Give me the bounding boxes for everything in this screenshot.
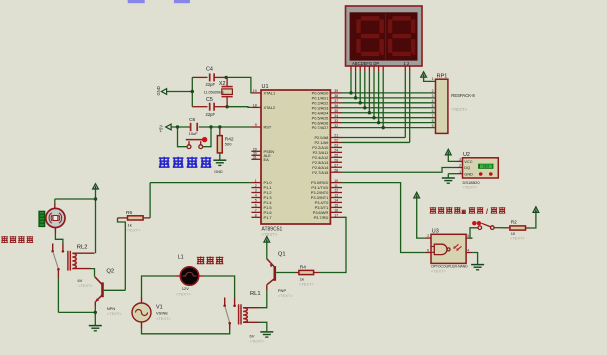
relay RL2 coil 6V bbox=[68, 244, 95, 288]
resistor R2 10 bbox=[494, 220, 530, 241]
svg-text:P1.7: P1.7 bbox=[264, 215, 272, 220]
U1 right pins P0 P2 P3 bbox=[311, 89, 342, 220]
svg-text:34: 34 bbox=[334, 114, 338, 118]
svg-text:+5V: +5V bbox=[158, 125, 163, 133]
svg-text:VSINE: VSINE bbox=[156, 311, 168, 316]
wire lamp right to lamp contact bbox=[199, 276, 235, 298]
7-segment display (2-digit, common anode) bbox=[346, 6, 423, 66]
svg-text:11.0592MHz: 11.0592MHz bbox=[204, 91, 224, 95]
svg-text:Q2: Q2 bbox=[106, 269, 114, 275]
svg-text:21: 21 bbox=[334, 134, 338, 138]
infrared trigger switch bbox=[470, 221, 494, 238]
svg-text:6: 6 bbox=[427, 249, 429, 253]
wire emitter bottom rail bbox=[58, 311, 97, 314]
svg-text:1: 1 bbox=[255, 179, 257, 183]
svg-text:9: 9 bbox=[432, 124, 434, 128]
svg-text:500: 500 bbox=[225, 142, 232, 147]
svg-text:22: 22 bbox=[334, 139, 338, 143]
svg-text:3: 3 bbox=[432, 94, 434, 98]
microcontroller U1 AT89C51 body bbox=[261, 84, 330, 237]
transistor Q2 NPN bbox=[95, 269, 126, 317]
relay contact switch (fan) bbox=[51, 244, 64, 313]
svg-text:RP1: RP1 bbox=[437, 74, 448, 80]
svg-text:DQ: DQ bbox=[464, 165, 470, 170]
svg-text:2: 2 bbox=[432, 89, 434, 93]
lamp L1 12V (kitchen light) bbox=[176, 255, 199, 297]
svg-text:GND: GND bbox=[464, 171, 473, 176]
svg-text:/: / bbox=[486, 209, 488, 216]
svg-text:U3: U3 bbox=[432, 229, 439, 235]
wire V1 bottom rail to lamp contact common bbox=[142, 328, 230, 334]
ground below RL1 bbox=[260, 332, 273, 337]
capacitor C6 10uF bbox=[189, 117, 199, 136]
svg-text:<TEXT>: <TEXT> bbox=[126, 228, 142, 233]
svg-text:12V: 12V bbox=[182, 286, 189, 291]
svg-text:10: 10 bbox=[334, 179, 338, 183]
transistor Q1 PNP bbox=[267, 251, 295, 298]
ground at Q2 emitter bbox=[89, 312, 102, 330]
svg-text:GND: GND bbox=[156, 86, 161, 95]
wire reset rail to RST pin 9 bbox=[171, 125, 251, 128]
svg-text:4: 4 bbox=[432, 99, 434, 103]
svg-text:26.0: 26.0 bbox=[483, 165, 489, 169]
svg-text:2: 2 bbox=[459, 164, 461, 168]
svg-text:18: 18 bbox=[253, 104, 257, 108]
svg-text:RST: RST bbox=[264, 125, 272, 130]
svg-text:12: 12 bbox=[334, 189, 338, 193]
svg-text:31: 31 bbox=[253, 156, 257, 160]
svg-text:<TEXT>: <TEXT> bbox=[250, 339, 266, 344]
svg-text:C5: C5 bbox=[206, 97, 213, 103]
relay contact switch (lamp) bbox=[223, 298, 236, 331]
svg-text:5: 5 bbox=[467, 234, 469, 238]
svg-text:R6: R6 bbox=[126, 210, 132, 216]
svg-text:1: 1 bbox=[459, 170, 461, 174]
svg-text:33: 33 bbox=[334, 119, 338, 123]
svg-text:C6: C6 bbox=[189, 117, 195, 123]
wire P3.0 to U3 pin6 bbox=[342, 183, 425, 253]
svg-text:R4: R4 bbox=[300, 265, 306, 271]
optocoupler U3 OPTOCOUPLER-NAND bbox=[425, 229, 473, 274]
svg-text:3: 3 bbox=[255, 189, 257, 193]
motor (kitchen fan) with terminal block bbox=[39, 204, 65, 234]
ground flag GND for crystal loop bbox=[156, 86, 192, 95]
svg-text:RESPACK-8: RESPACK-8 bbox=[451, 93, 475, 98]
wire C4 junction to XTAL1 bbox=[225, 76, 252, 93]
svg-text:5: 5 bbox=[432, 104, 434, 108]
svg-text:35: 35 bbox=[334, 109, 338, 113]
resistor pack RP1 RESPACK-8 bbox=[432, 74, 476, 134]
svg-text:6: 6 bbox=[255, 204, 257, 208]
svg-text:19: 19 bbox=[253, 89, 257, 93]
svg-text:17: 17 bbox=[334, 214, 338, 218]
svg-text:R2: R2 bbox=[511, 220, 517, 226]
svg-text:14: 14 bbox=[334, 199, 338, 203]
sine source V1 VSINE bbox=[132, 297, 172, 328]
svg-text:XTAL2: XTAL2 bbox=[264, 105, 276, 110]
svg-text:P0.7/AD7: P0.7/AD7 bbox=[312, 125, 329, 130]
svg-text:L1: L1 bbox=[178, 255, 184, 261]
wire display digit1 to P2.0 bbox=[342, 72, 405, 138]
svg-text:8: 8 bbox=[255, 214, 257, 218]
wire U2 DQ to P2.7 bbox=[342, 168, 457, 173]
clipped blue toolbar text fragments top bbox=[128, 0, 145, 3]
svg-text:1 2: 1 2 bbox=[404, 61, 410, 66]
wire display digit2 to P2.1 bbox=[342, 72, 410, 143]
resistor R6 1k base resistor bbox=[118, 183, 252, 291]
svg-text:EA: EA bbox=[264, 157, 270, 162]
svg-text:38: 38 bbox=[334, 94, 338, 98]
svg-text:2: 2 bbox=[427, 234, 429, 238]
U1 left pins XTAL1 XTAL2 RST PSEN ALE EA P1.0-P1.7 bbox=[251, 89, 275, 220]
svg-text:10uF: 10uF bbox=[189, 131, 199, 136]
svg-text:<TEXT>: <TEXT> bbox=[451, 107, 467, 112]
red label: kitchen light (Chinese) bbox=[197, 256, 223, 264]
svg-text:37: 37 bbox=[334, 99, 338, 103]
resistor R42 500 bbox=[217, 127, 234, 160]
svg-text:X2: X2 bbox=[219, 81, 226, 87]
svg-text:27: 27 bbox=[334, 163, 338, 167]
svg-text:<TEXT>: <TEXT> bbox=[463, 185, 479, 190]
svg-text:P3.7/RD: P3.7/RD bbox=[314, 215, 329, 220]
svg-text:22pF: 22pF bbox=[206, 112, 216, 117]
svg-text:GND: GND bbox=[214, 170, 223, 174]
wire RL2 to Q2 collector bbox=[91, 269, 95, 277]
wire RL1 bottom to ground bbox=[259, 322, 267, 331]
wire crystal left rail bbox=[191, 77, 194, 106]
capacitor C4 22pF bbox=[192, 66, 226, 87]
display segment pins bbox=[351, 66, 410, 72]
svg-text:RL2: RL2 bbox=[77, 244, 88, 250]
wire motor top feed bbox=[55, 199, 96, 204]
svg-text:23: 23 bbox=[334, 144, 338, 148]
svg-text:4: 4 bbox=[255, 194, 257, 198]
svg-text:VCC: VCC bbox=[464, 159, 472, 164]
wire R4 to P3.7 bbox=[319, 217, 346, 272]
power flag VCC for RP1 bbox=[421, 72, 436, 82]
svg-text:2: 2 bbox=[255, 184, 257, 188]
svg-text:28: 28 bbox=[334, 168, 338, 172]
power flag +5V for reset bbox=[158, 124, 171, 132]
svg-text:6: 6 bbox=[432, 109, 434, 113]
svg-text:7: 7 bbox=[432, 114, 434, 118]
temperature sensor U2 DS18B20 bbox=[457, 152, 498, 189]
svg-text:7: 7 bbox=[255, 209, 257, 213]
svg-text:16: 16 bbox=[334, 209, 338, 213]
svg-text:26: 26 bbox=[334, 159, 338, 163]
crystal X2 11.0592MHz bbox=[204, 77, 233, 106]
svg-text:3: 3 bbox=[459, 158, 461, 162]
svg-text:<TEXT>: <TEXT> bbox=[431, 269, 447, 274]
resistor R4 1k base resistor bbox=[295, 265, 319, 287]
svg-text:<TEXT>: <TEXT> bbox=[176, 292, 192, 297]
svg-text:<TEXT>: <TEXT> bbox=[299, 282, 315, 287]
svg-text:C4: C4 bbox=[206, 66, 213, 72]
ground at U2 GND pin bbox=[442, 174, 457, 184]
wire RL1 top to Q1 collector bbox=[259, 290, 267, 308]
svg-text:U1: U1 bbox=[262, 84, 269, 90]
power flag for fan/relay RL2 bbox=[93, 184, 99, 254]
svg-text:8: 8 bbox=[432, 119, 434, 123]
svg-text:<TEXT>: <TEXT> bbox=[107, 311, 123, 316]
svg-text:22pF: 22pF bbox=[206, 82, 216, 87]
power flag for Q1 emitter bbox=[264, 237, 270, 259]
red label: infrared detect person/no person (Chinese) bbox=[430, 207, 506, 216]
svg-text:9: 9 bbox=[255, 123, 257, 127]
svg-text:5: 5 bbox=[255, 199, 257, 203]
svg-text:13: 13 bbox=[334, 194, 338, 198]
svg-text:<TEXT>: <TEXT> bbox=[262, 232, 278, 237]
wire motor to fan contact bbox=[55, 233, 63, 244]
svg-text:25: 25 bbox=[334, 154, 338, 158]
svg-text:4: 4 bbox=[467, 249, 469, 253]
svg-text:36: 36 bbox=[334, 104, 338, 108]
svg-text:<TEXT>: <TEXT> bbox=[278, 293, 294, 298]
svg-text:<TEXT>: <TEXT> bbox=[510, 236, 526, 241]
reset push button bbox=[178, 127, 212, 149]
svg-text:24: 24 bbox=[334, 149, 338, 153]
power flag VCC for U2 bbox=[445, 149, 457, 161]
wire C5 junction to XTAL2 bbox=[225, 105, 251, 108]
capacitor C5 22pF bbox=[192, 97, 227, 117]
svg-text:<TEXT>: <TEXT> bbox=[78, 283, 94, 288]
svg-text:Q1: Q1 bbox=[278, 251, 286, 257]
svg-text:RL1: RL1 bbox=[250, 291, 261, 297]
svg-text:11: 11 bbox=[334, 184, 338, 188]
svg-text:XTAL1: XTAL1 bbox=[264, 91, 276, 96]
svg-text:39: 39 bbox=[334, 89, 338, 93]
svg-text:32: 32 bbox=[334, 124, 338, 128]
svg-text:15: 15 bbox=[334, 204, 338, 208]
svg-text:U2: U2 bbox=[463, 152, 470, 158]
svg-text:P2.7/A15: P2.7/A15 bbox=[312, 170, 328, 175]
red label: kitchen fan (Chinese) bbox=[1, 236, 33, 243]
power flag at R2 bbox=[530, 207, 539, 228]
blue label: reset button (Chinese) bbox=[159, 157, 211, 168]
ground below R42 bbox=[213, 160, 226, 174]
svg-text:ABCDEFG DP: ABCDEFG DP bbox=[352, 61, 379, 66]
svg-text:1: 1 bbox=[432, 77, 434, 81]
wire lamp left to V1 bbox=[142, 276, 181, 297]
power flag for U3 pin2 bbox=[414, 192, 425, 238]
ground at U3 pin4 bbox=[471, 253, 484, 270]
wires display segments A-DP to P0 bus rows bbox=[342, 72, 436, 129]
svg-text:<TEXT>: <TEXT> bbox=[156, 316, 172, 321]
relay RL1 coil 6V bbox=[239, 291, 265, 343]
